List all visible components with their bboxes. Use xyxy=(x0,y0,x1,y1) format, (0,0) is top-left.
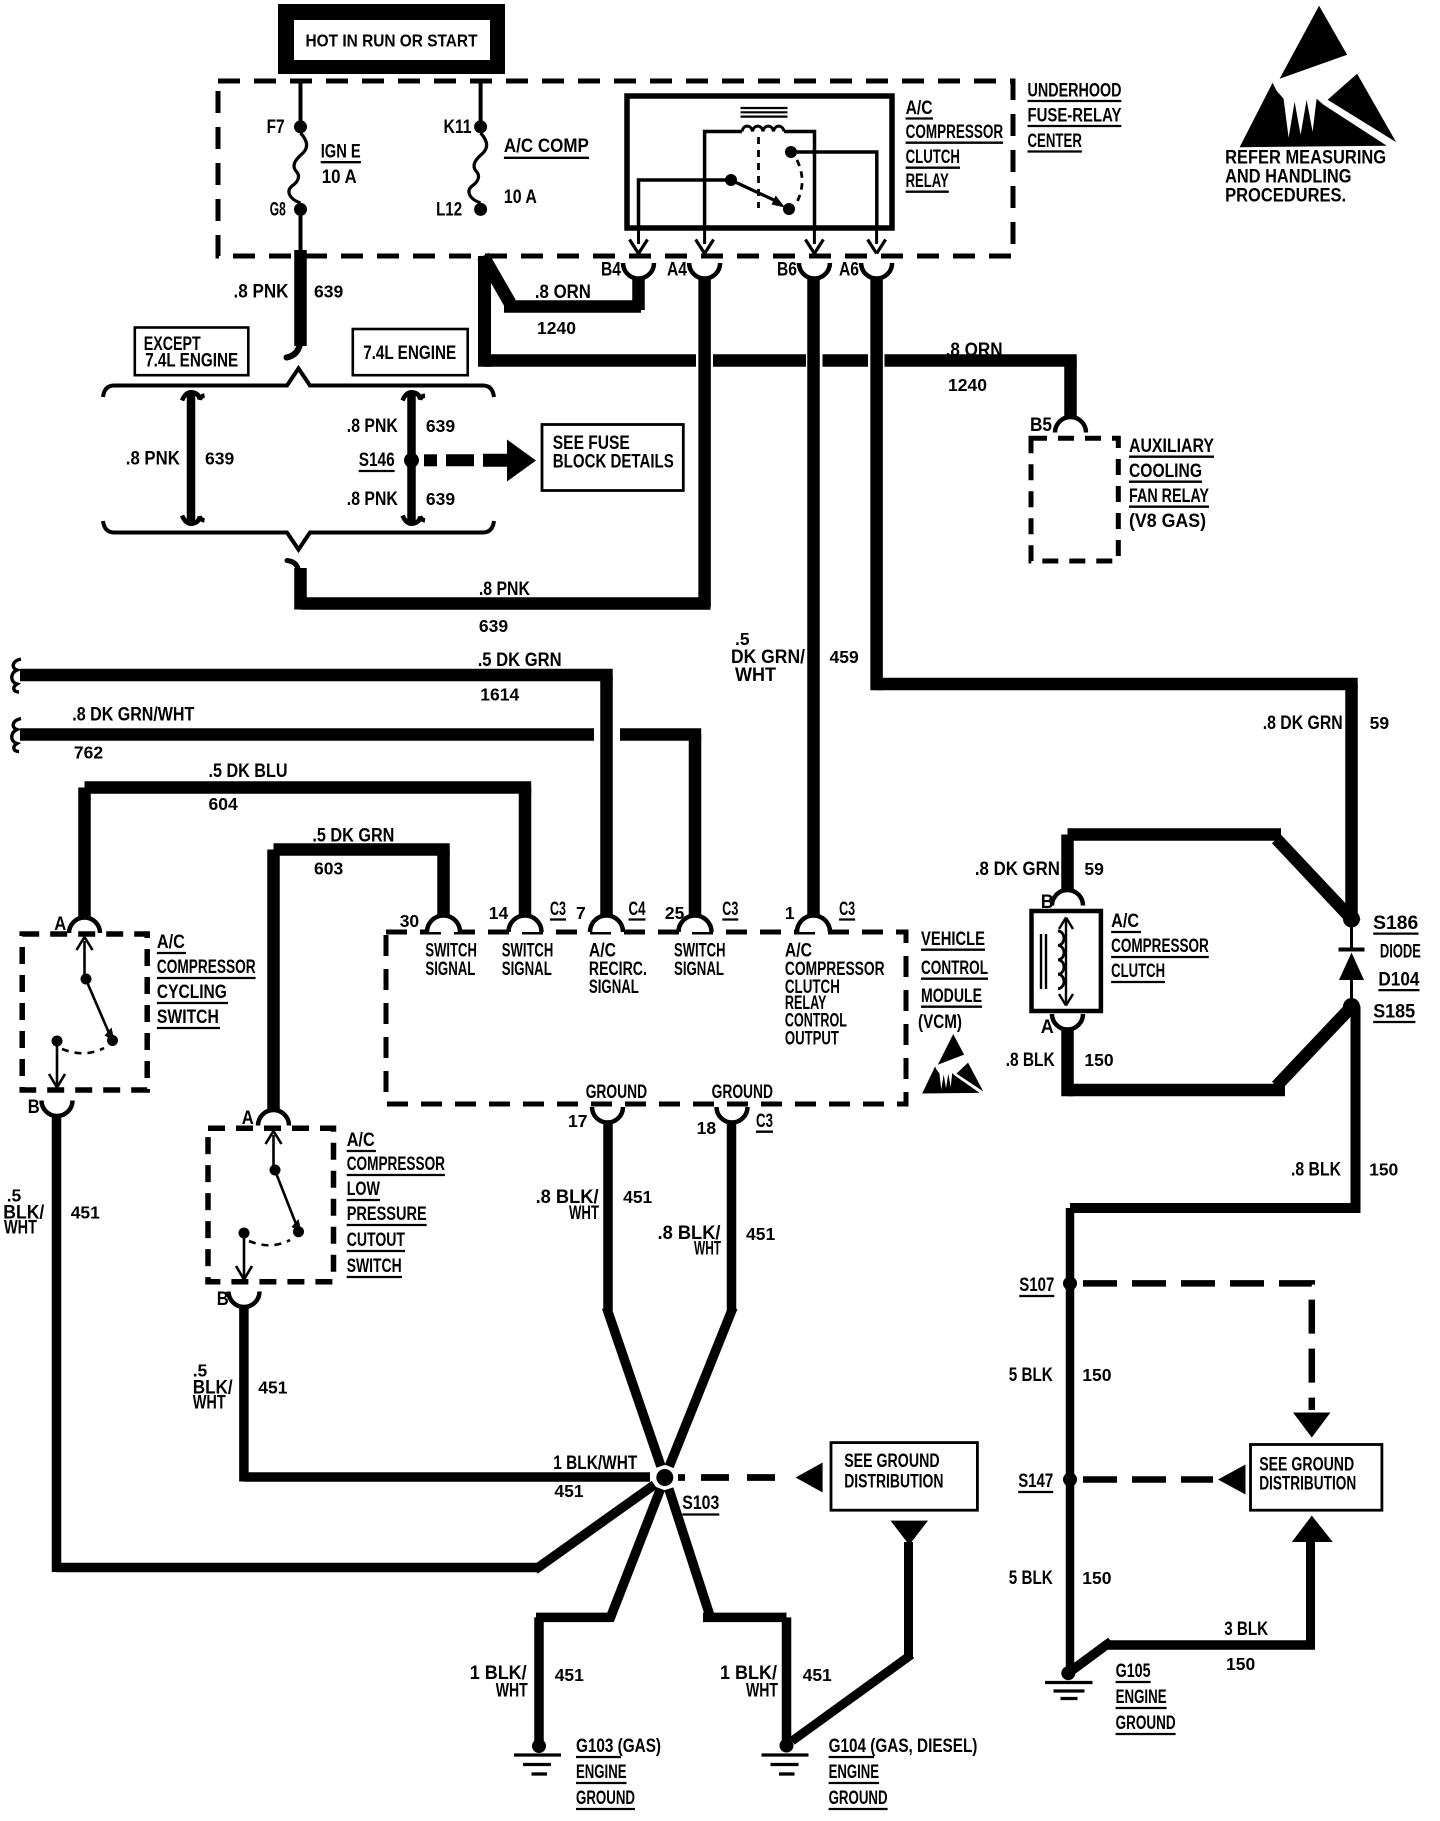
svg-text:GROUND: GROUND xyxy=(712,1082,773,1103)
svg-text:B4: B4 xyxy=(601,260,621,281)
wire 1 BLK/WHT 451 from low pressure switch B xyxy=(193,1307,650,1501)
wire to low pressure switch pin A xyxy=(258,1110,289,1126)
lead ground distribution to G105 (3 BLK 150) xyxy=(1071,1516,1333,1674)
splice S103 xyxy=(656,1469,719,1515)
svg-text:SIGNAL: SIGNAL xyxy=(674,959,724,980)
svg-text:G105: G105 xyxy=(1116,1661,1151,1682)
svg-text:B: B xyxy=(28,1097,40,1118)
relay core lines xyxy=(741,108,788,117)
wire to fuse F7 xyxy=(299,83,303,121)
svg-text:C3: C3 xyxy=(722,899,738,920)
svg-text:FAN RELAY: FAN RELAY xyxy=(1129,486,1209,507)
svg-text:S146: S146 xyxy=(359,450,395,471)
svg-text:CENTER: CENTER xyxy=(1028,131,1083,152)
svg-text:IGN E: IGN E xyxy=(321,142,361,163)
svg-text:G8: G8 xyxy=(270,200,286,221)
svg-text:SEE GROUND: SEE GROUND xyxy=(844,1451,939,1472)
fuse A/C COMP 10 A (K11-L12) xyxy=(436,117,589,221)
svg-text:150: 150 xyxy=(1226,1654,1255,1674)
ESD warning logo top right xyxy=(1240,6,1397,147)
ground G105 xyxy=(1045,1661,1176,1734)
svg-text:C3: C3 xyxy=(756,1111,773,1132)
svg-text:K11: K11 xyxy=(444,117,472,138)
svg-text:639: 639 xyxy=(314,281,343,301)
brace top xyxy=(103,369,494,398)
svg-text:OUTPUT: OUTPUT xyxy=(785,1028,839,1049)
svg-text:DISTRIBUTION: DISTRIBUTION xyxy=(844,1472,943,1493)
svg-text:ENGINE: ENGINE xyxy=(1116,1687,1167,1708)
VCM pin 30 xyxy=(400,911,460,932)
svg-text:1240: 1240 xyxy=(948,375,987,395)
wire .5 BLK/WHT 451 from cycling switch B xyxy=(3,1116,654,1572)
wire .8 BLK 150 from S185 to S107 xyxy=(1070,1007,1399,1286)
svg-text:451: 451 xyxy=(623,1187,652,1207)
svg-text:.5: .5 xyxy=(735,629,750,649)
svg-text:DISTRIBUTION: DISTRIBUTION xyxy=(1259,1474,1356,1495)
svg-text:A: A xyxy=(1041,1017,1054,1038)
svg-text:GROUND: GROUND xyxy=(1116,1713,1176,1734)
VCM pin C3 label xyxy=(550,899,566,920)
svg-text:59: 59 xyxy=(1370,713,1390,733)
wire 1 BLK/WHT 451 S103 to G103 xyxy=(470,1489,661,1741)
svg-text:AUXILIARY: AUXILIARY xyxy=(1129,436,1214,457)
svg-text:PROCEDURES.: PROCEDURES. xyxy=(1225,184,1346,206)
svg-text:.8 PNK: .8 PNK xyxy=(347,489,398,510)
relay movable arm arrow xyxy=(734,182,785,208)
wire .8 DK GRN/WHT 762 to VCM pin 25 xyxy=(12,704,701,917)
svg-text:.8 PNK: .8 PNK xyxy=(234,281,289,302)
svg-text:WHT: WHT xyxy=(4,1217,37,1238)
svg-text:7: 7 xyxy=(576,903,586,923)
svg-text:A6: A6 xyxy=(839,260,859,281)
VCM pin 1 xyxy=(785,903,830,932)
svg-text:L12: L12 xyxy=(436,200,462,221)
splice S146 xyxy=(359,450,419,471)
svg-text:SIGNAL: SIGNAL xyxy=(502,959,552,980)
svg-text:GROUND: GROUND xyxy=(576,1788,635,1809)
svg-text:A/C: A/C xyxy=(906,98,933,119)
svg-text:GROUND: GROUND xyxy=(829,1788,888,1809)
connector B5 xyxy=(1030,415,1086,436)
svg-text:.8 DK GRN/WHT: .8 DK GRN/WHT xyxy=(72,704,194,725)
svg-text:B6: B6 xyxy=(777,260,797,281)
svg-text:1: 1 xyxy=(785,903,795,923)
svg-text:.5 DK GRN: .5 DK GRN xyxy=(478,650,562,671)
svg-text:VEHICLE: VEHICLE xyxy=(921,929,985,950)
lead ground distribution to G104 xyxy=(792,1521,928,1741)
label A/C COMPRESSOR CYCLING SWITCH xyxy=(157,932,256,1028)
svg-text:GROUND: GROUND xyxy=(586,1082,647,1103)
wire .8 PNK 639 from fuse G8 xyxy=(234,214,344,358)
wire .8 DK GRN 59 from A6 to S186 xyxy=(877,277,1390,919)
SEE GROUND DISTRIBUTION box right xyxy=(1251,1445,1382,1511)
brace bottom xyxy=(103,521,494,550)
svg-text:10 A: 10 A xyxy=(322,167,357,188)
svg-text:WHT: WHT xyxy=(694,1239,721,1260)
relay armature dashed link xyxy=(757,137,760,208)
label A/C COMPRESSOR CLUTCH RELAY xyxy=(906,98,1004,192)
HOT IN RUN OR START banner xyxy=(278,4,505,74)
svg-text:5 BLK: 5 BLK xyxy=(1009,1365,1053,1386)
dashed lead S103 to ground distribution xyxy=(678,1463,823,1493)
svg-text:5 BLK: 5 BLK xyxy=(1009,1568,1053,1589)
underhood fuse-relay center box xyxy=(218,81,1013,256)
svg-text:150: 150 xyxy=(1082,1568,1111,1588)
relay common contact to B4 xyxy=(639,174,738,226)
svg-text:.8 ORN: .8 ORN xyxy=(946,340,1003,361)
svg-text:LOW: LOW xyxy=(347,1179,380,1200)
svg-text:7.4L ENGINE: 7.4L ENGINE xyxy=(363,343,456,364)
svg-text:459: 459 xyxy=(830,647,859,667)
svg-text:S185: S185 xyxy=(1373,1001,1415,1022)
wire .5 DK GRN 603 low pressure switch to VCM pin 30 xyxy=(274,826,450,1111)
svg-text:3 BLK: 3 BLK xyxy=(1224,1619,1268,1640)
splice S147 xyxy=(1018,1471,1077,1492)
svg-text:.8 PNK: .8 PNK xyxy=(126,448,180,469)
pin B4 arrow and connector xyxy=(601,228,654,281)
svg-text:14: 14 xyxy=(489,903,509,923)
VCM pin C3 label 2 xyxy=(722,899,738,920)
wire .8 ORN 1240 from L12 to B4 xyxy=(483,256,641,338)
svg-text:150: 150 xyxy=(1084,1050,1113,1070)
label A/C COMPRESSOR LOW PRESSURE CUTOUT SWITCH xyxy=(347,1130,445,1277)
relay coil wire to B6 xyxy=(784,132,815,227)
label A/C COMPRESSOR CLUTCH xyxy=(1111,911,1209,982)
bracket wire .8 PNK 639 (7.4L) xyxy=(347,392,456,523)
VCM internal labels xyxy=(425,941,884,1103)
fuse IGN E 10 A (F7-G8) xyxy=(267,117,361,221)
svg-text:.8 ORN: .8 ORN xyxy=(535,282,591,303)
VCM pin C4 label xyxy=(629,899,646,920)
svg-text:G103 (GAS): G103 (GAS) xyxy=(576,1736,661,1757)
wire 1 BLK/WHT 451 S103 to G104 xyxy=(669,1489,832,1741)
low pressure switch contacts xyxy=(236,1131,304,1280)
cycling switch pin B connector xyxy=(42,1101,73,1117)
svg-text:(V8 GAS): (V8 GAS) xyxy=(1129,511,1206,532)
svg-text:HOT IN RUN OR START: HOT IN RUN OR START xyxy=(306,31,478,51)
wire .8 BLK/WHT 451 from VCM pin 17 xyxy=(536,1123,661,1467)
VCM pin 7 xyxy=(576,903,623,932)
svg-text:WHT: WHT xyxy=(569,1203,599,1224)
svg-text:S103: S103 xyxy=(682,1493,719,1514)
svg-text:WHT: WHT xyxy=(735,665,776,686)
wire .8 DK GRN 59 from S186 to clutch B xyxy=(975,835,1356,924)
low pressure switch pin B connector xyxy=(229,1292,260,1308)
svg-text:.8 BLK: .8 BLK xyxy=(1291,1160,1341,1181)
svg-text:ENGINE: ENGINE xyxy=(829,1762,880,1783)
pin A4 arrow and connector xyxy=(667,228,720,281)
svg-text:1 BLK/WHT: 1 BLK/WHT xyxy=(553,1453,637,1474)
wire .5 DK BLU 604 cycling switch to VCM pin 14 xyxy=(85,761,532,918)
pin A6 arrow and connector xyxy=(839,228,892,281)
svg-text:451: 451 xyxy=(71,1202,100,1222)
svg-text:451: 451 xyxy=(803,1665,832,1685)
svg-text:17: 17 xyxy=(568,1111,587,1131)
svg-text:30: 30 xyxy=(400,911,420,931)
clutch pin A connector xyxy=(1041,1014,1083,1038)
relay NO contact xyxy=(783,203,795,215)
svg-text:MODULE: MODULE xyxy=(921,986,982,1007)
svg-text:639: 639 xyxy=(205,448,234,468)
dashed lead S107 to ground distribution xyxy=(1083,1283,1331,1437)
svg-text:RELAY: RELAY xyxy=(906,171,949,192)
label UNDERHOOD FUSE-RELAY CENTER xyxy=(1028,81,1122,153)
wire .5 DK GRN/WHT 459 from B6 to VCM pin 1 xyxy=(731,277,859,917)
wire A4 vertical xyxy=(698,277,711,607)
clutch pin B connector xyxy=(1041,890,1083,913)
ground G103 xyxy=(514,1736,661,1809)
SEE GROUND DISTRIBUTION box left xyxy=(831,1443,977,1511)
svg-text:A: A xyxy=(242,1108,254,1129)
dashed lead S147 to ground distribution xyxy=(1083,1465,1246,1495)
svg-text:DIODE: DIODE xyxy=(1380,942,1421,963)
pin B6 arrow and connector xyxy=(777,228,830,281)
svg-text:.5 DK GRN: .5 DK GRN xyxy=(312,826,394,847)
svg-text:451: 451 xyxy=(555,1665,584,1685)
svg-text:451: 451 xyxy=(554,1481,583,1501)
svg-text:C3: C3 xyxy=(839,899,855,920)
VCM pin C3 label 3 xyxy=(839,899,855,920)
svg-text:CLUTCH: CLUTCH xyxy=(1111,961,1165,982)
svg-text:.8 BLK: .8 BLK xyxy=(1006,1050,1055,1071)
relay coil xyxy=(742,126,784,131)
svg-text:762: 762 xyxy=(74,742,103,762)
svg-text:10 A: 10 A xyxy=(504,187,537,208)
svg-text:451: 451 xyxy=(746,1224,775,1244)
wire .8 BLK/WHT 451 from VCM pin 18 xyxy=(658,1123,776,1467)
A/C compressor clutch coil xyxy=(1032,911,1101,1011)
svg-text:150: 150 xyxy=(1369,1160,1398,1180)
relay coil wire to A4 xyxy=(705,132,742,227)
svg-text:1240: 1240 xyxy=(537,318,576,338)
A/C compressor low pressure cutout switch box xyxy=(208,1128,334,1281)
svg-text:18: 18 xyxy=(697,1118,717,1138)
svg-text:WHT: WHT xyxy=(746,1680,778,1701)
svg-text:CLUTCH: CLUTCH xyxy=(906,147,960,168)
svg-text:SEE GROUND: SEE GROUND xyxy=(1259,1454,1354,1475)
VCM pin 14 xyxy=(489,903,542,932)
svg-text:7.4L ENGINE: 7.4L ENGINE xyxy=(145,350,238,371)
svg-text:A/C: A/C xyxy=(1111,911,1139,932)
svg-text:S147: S147 xyxy=(1018,1471,1053,1492)
svg-text:150: 150 xyxy=(1082,1365,1111,1385)
svg-text:604: 604 xyxy=(209,794,238,814)
EXCEPT 7.4L ENGINE box xyxy=(135,328,249,376)
svg-text:A/C: A/C xyxy=(347,1130,375,1151)
svg-text:COMPRESSOR: COMPRESSOR xyxy=(1111,936,1209,957)
svg-text:.8 PNK: .8 PNK xyxy=(479,579,530,600)
cycling switch pin labels xyxy=(28,914,67,1118)
svg-text:C4: C4 xyxy=(629,899,646,920)
diode D104 xyxy=(1339,919,1421,1006)
svg-text:SIGNAL: SIGNAL xyxy=(589,977,639,998)
svg-text:639: 639 xyxy=(426,416,455,436)
svg-text:S186: S186 xyxy=(1373,913,1418,934)
svg-text:B5: B5 xyxy=(1030,415,1052,436)
wire 5 BLK 150 S107 to S147 xyxy=(1009,1283,1112,1479)
VCM pin 18 xyxy=(697,1107,748,1138)
ground G104 xyxy=(762,1736,978,1809)
svg-text:A/C COMP: A/C COMP xyxy=(504,136,589,157)
VCM pin 25 xyxy=(665,903,712,932)
svg-text:(VCM): (VCM) xyxy=(918,1012,962,1033)
bracket wire .8 PNK 639 (except 7.4L) xyxy=(126,392,235,523)
wire .5 DK GRN 1614 to VCM pin 7 xyxy=(12,650,613,917)
relay box A/C compressor clutch relay xyxy=(627,96,892,228)
wire 5 BLK 150 S147 to G105 xyxy=(1009,1480,1112,1669)
svg-text:COMPRESSOR: COMPRESSOR xyxy=(347,1154,445,1175)
svg-text:D104: D104 xyxy=(1378,969,1419,990)
svg-text:C3: C3 xyxy=(550,899,566,920)
svg-text:A: A xyxy=(54,914,66,935)
wire .8 ORN 1240 from L12 to B5 xyxy=(485,256,1077,418)
label VEHICLE CONTROL MODULE (VCM) xyxy=(918,929,988,1033)
svg-text:59: 59 xyxy=(1084,859,1104,879)
VCM pin 18 C3 label xyxy=(756,1111,773,1132)
svg-text:G104 (GAS, DIESEL): G104 (GAS, DIESEL) xyxy=(829,1736,978,1757)
svg-text:.8 DK GRN: .8 DK GRN xyxy=(975,859,1060,880)
VCM pin 17 xyxy=(568,1107,623,1131)
wire to cycling switch pin A xyxy=(69,917,100,933)
svg-text:F7: F7 xyxy=(267,117,285,138)
auxiliary cooling fan relay box xyxy=(1031,438,1118,561)
svg-text:COOLING: COOLING xyxy=(1129,461,1202,482)
svg-text:A/C: A/C xyxy=(157,932,185,953)
splice S186 xyxy=(1343,911,1419,934)
svg-text:.8 PNK: .8 PNK xyxy=(347,416,398,437)
svg-text:SIGNAL: SIGNAL xyxy=(425,959,475,980)
ESD warning logo at VCM xyxy=(922,1034,983,1093)
splice S107 xyxy=(1019,1275,1077,1296)
svg-text:639: 639 xyxy=(479,616,508,636)
relay NC contact to A6 xyxy=(785,146,877,226)
label AUXILIARY COOLING FAN RELAY (V8 GAS) xyxy=(1129,436,1214,532)
svg-text:CONTROL: CONTROL xyxy=(921,958,988,979)
svg-text:.8 DK GRN: .8 DK GRN xyxy=(1263,713,1343,734)
svg-text:SWITCH: SWITCH xyxy=(347,1256,402,1277)
svg-text:CUTOUT: CUTOUT xyxy=(347,1230,406,1251)
7.4L ENGINE box xyxy=(353,329,468,375)
svg-text:.5 DK BLU: .5 DK BLU xyxy=(209,761,288,782)
svg-text:CYCLING: CYCLING xyxy=(157,982,227,1003)
svg-text:451: 451 xyxy=(258,1377,287,1397)
wire to fuse K11 xyxy=(479,83,483,121)
splice S185 xyxy=(1343,998,1416,1022)
svg-text:WHT: WHT xyxy=(193,1392,226,1413)
svg-text:PRESSURE: PRESSURE xyxy=(347,1204,427,1225)
svg-text:WHT: WHT xyxy=(496,1680,528,1701)
cycling switch contacts xyxy=(49,937,118,1088)
svg-text:FUSE-RELAY: FUSE-RELAY xyxy=(1028,106,1122,127)
SEE FUSE BLOCK DETAILS box xyxy=(542,425,683,491)
wire .8 BLK 150 from clutch A to S185 xyxy=(1006,1002,1356,1096)
svg-text:25: 25 xyxy=(665,903,685,923)
svg-text:S107: S107 xyxy=(1019,1275,1054,1296)
svg-text:603: 603 xyxy=(314,859,343,879)
relay dashed travel arc xyxy=(797,160,802,201)
svg-text:BLOCK DETAILS: BLOCK DETAILS xyxy=(553,452,674,473)
svg-text:COMPRESSOR: COMPRESSOR xyxy=(906,122,1004,143)
vehicle control module VCM box xyxy=(386,932,906,1104)
svg-text:ENGINE: ENGINE xyxy=(576,1762,627,1783)
dashed lead to see fuse block details xyxy=(424,440,536,482)
wire .8 PNK 639 from brace to A4 xyxy=(287,561,711,637)
svg-text:639: 639 xyxy=(426,489,455,509)
svg-text:COMPRESSOR: COMPRESSOR xyxy=(157,957,256,978)
A/C compressor cycling switch box xyxy=(22,934,147,1090)
svg-text:1614: 1614 xyxy=(480,684,519,704)
svg-text:UNDERHOOD: UNDERHOOD xyxy=(1028,81,1122,102)
svg-text:SWITCH: SWITCH xyxy=(157,1007,219,1028)
low pressure switch pin labels xyxy=(217,1108,254,1310)
svg-text:A4: A4 xyxy=(667,260,687,281)
label REFER MEASURING AND HANDLING PROCEDURES xyxy=(1225,146,1386,206)
